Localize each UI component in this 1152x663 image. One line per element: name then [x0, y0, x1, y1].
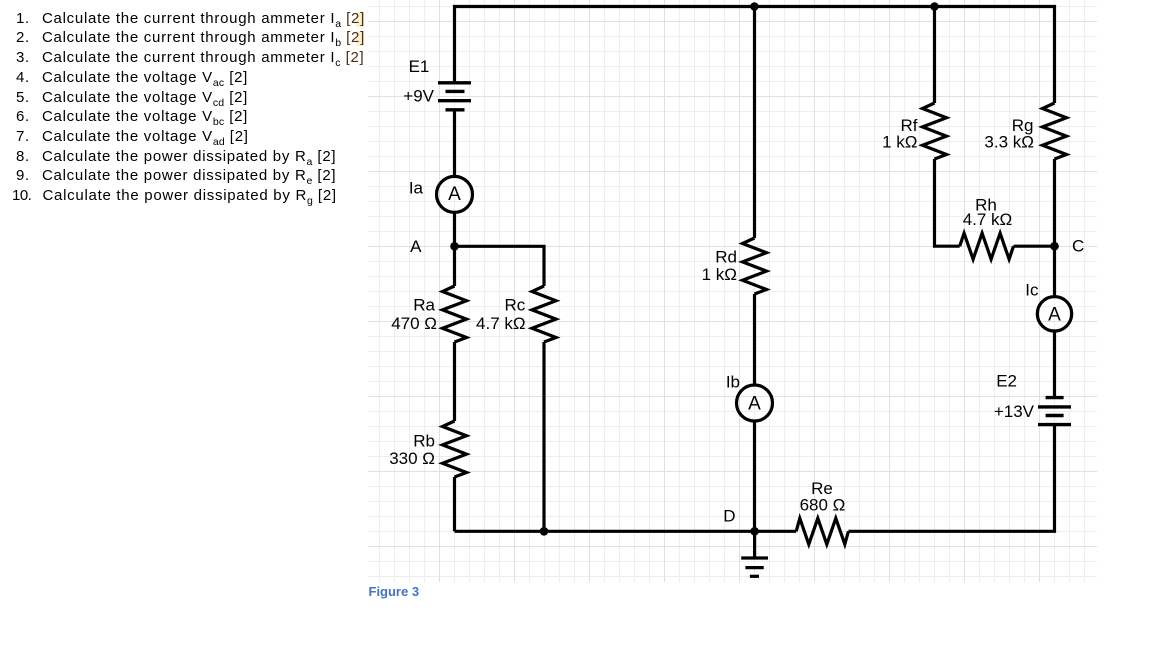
wire top bus	[455, 7, 1055, 104]
wire Ib to node D	[753, 421, 756, 531]
wire Ia to Ra through node A	[453, 212, 456, 286]
svg-text:+9V: +9V	[403, 87, 434, 106]
ammeter Ib	[737, 385, 773, 421]
wire Rf branch from top bus	[933, 7, 936, 104]
junction node on top bus (Rf)	[930, 2, 939, 11]
ammeter Ia	[437, 176, 473, 212]
svg-text:Rc: Rc	[505, 296, 526, 315]
resistor Rf 1k	[923, 103, 947, 159]
wire Rb to bottom bus	[453, 477, 456, 531]
svg-text:D: D	[723, 507, 735, 526]
comment highlight line1	[356, 12, 364, 27]
wire Rd to ammeter Ib	[753, 294, 756, 385]
svg-text:680 Ω: 680 Ω	[800, 496, 846, 515]
node C junction	[1050, 242, 1059, 251]
wire bottom bus left	[455, 530, 797, 533]
svg-text:Ic: Ic	[1025, 281, 1039, 300]
resistor Re 680 ohm horizontal	[796, 518, 848, 544]
svg-text:4.7 kΩ: 4.7 kΩ	[476, 314, 526, 333]
wire node A to Rc	[455, 246, 545, 286]
svg-text:Ia: Ia	[409, 179, 424, 198]
svg-text:A: A	[1048, 305, 1061, 326]
wire bottom bus right to E2	[848, 425, 1054, 532]
wire node C to Rg	[1053, 159, 1056, 246]
wire Ic to node C	[1053, 246, 1056, 296]
svg-text:E2: E2	[996, 372, 1017, 391]
svg-text:E1: E1	[409, 57, 430, 76]
wire E1 to ammeter Ia	[453, 110, 456, 177]
svg-text:C: C	[1072, 237, 1084, 256]
wire Ra to Rb	[453, 342, 456, 421]
wire Rc leg down	[542, 342, 545, 531]
battery E2 +13V	[1038, 398, 1071, 425]
resistor Rb 330 ohm	[443, 421, 467, 477]
resistor Rd 1k	[743, 238, 767, 294]
svg-text:330 Ω: 330 Ω	[389, 449, 435, 468]
svg-text:Ra: Ra	[413, 296, 435, 315]
ground at node D	[741, 531, 768, 576]
svg-text:A: A	[448, 184, 461, 205]
wire E2 to ammeter Ic	[1053, 332, 1056, 398]
battery E1 +9V	[438, 83, 471, 110]
svg-text:Ib: Ib	[726, 373, 740, 392]
svg-text:A: A	[748, 394, 761, 415]
junction Rc/bottom bus	[540, 527, 549, 536]
svg-text:A: A	[410, 237, 422, 256]
svg-text:+13V: +13V	[994, 402, 1035, 421]
comment highlight line2	[356, 31, 364, 46]
node D junction	[750, 527, 759, 536]
caption Figure 3	[369, 584, 420, 599]
wire Rf to Rh corner	[935, 159, 960, 246]
wire Rh to node C	[1014, 245, 1055, 248]
svg-text:4.7 kΩ: 4.7 kΩ	[963, 210, 1013, 229]
wire Rd branch from top bus	[753, 7, 756, 239]
node A junction	[450, 242, 459, 251]
resistor Ra 470 ohm	[443, 286, 467, 342]
resistor Rc 4.7k	[532, 286, 556, 342]
svg-text:3.3 kΩ: 3.3 kΩ	[984, 133, 1034, 152]
junction node on top bus (Rd)	[750, 2, 759, 11]
resistor Rg 3.3k	[1043, 103, 1067, 159]
grid background of schematic	[368, 0, 1097, 582]
ammeter Ic	[1037, 297, 1071, 331]
svg-text:1 kΩ: 1 kΩ	[882, 133, 917, 152]
svg-text:Rd: Rd	[715, 247, 737, 266]
svg-text:Rb: Rb	[413, 432, 435, 451]
questions list	[16, 9, 365, 29]
svg-text:470 Ω: 470 Ω	[391, 314, 437, 333]
resistor Rh 4.7k horizontal	[960, 233, 1014, 259]
svg-text:1 kΩ: 1 kΩ	[702, 265, 737, 284]
